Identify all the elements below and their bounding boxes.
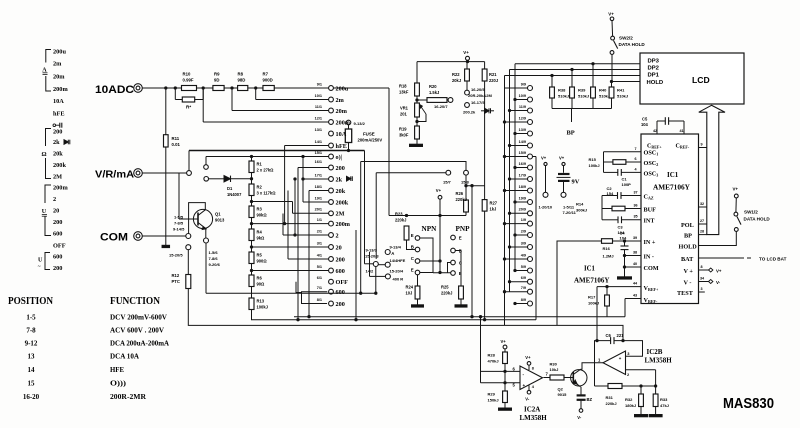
svg-text:16/9: 16/9	[519, 162, 526, 166]
power V+ to contact 1-20/10	[541, 155, 547, 192]
rotary switch wafer-9 contact 18/9	[503, 185, 532, 193]
net label BP	[567, 130, 575, 137]
IC1 label duplicate (left)	[574, 266, 609, 285]
wire R27 to bottom bus	[484, 211, 486, 320]
IC1 pin 34 V-	[684, 276, 721, 286]
svg-text:300kJ: 300kJ	[576, 207, 587, 212]
rotary switch wafer-9 contact 20/9	[508, 208, 532, 216]
svg-text:V+: V+	[436, 188, 442, 193]
svg-text:BP: BP	[567, 130, 575, 137]
power V+ hFE socket	[436, 188, 442, 274]
svg-text:2/9: 2/9	[521, 229, 526, 233]
capacitor C6 221	[595, 333, 643, 363]
wire tap 20m range (x232)	[232, 88, 329, 111]
resistor R4	[249, 229, 265, 241]
svg-text:13kF: 13kF	[399, 90, 409, 95]
resistor R25 220kJ	[441, 285, 463, 305]
transistor Q2 9015	[558, 369, 588, 397]
svg-text:1.2MJ: 1.2MJ	[603, 253, 614, 258]
rotary switch wafer-9 contact 6/9	[508, 276, 532, 284]
svg-text:2: 2	[336, 232, 339, 239]
svg-text:14/9: 14/9	[519, 140, 526, 144]
svg-text:39: 39	[633, 236, 637, 240]
svg-text:200: 200	[53, 265, 62, 272]
wire Q1 collector loop to contact	[189, 203, 206, 234]
svg-text:DP2: DP2	[648, 66, 660, 72]
svg-text:20m: 20m	[336, 108, 348, 115]
svg-text:V +: V +	[684, 268, 694, 275]
svg-text:9kΩ: 9kΩ	[257, 235, 266, 240]
svg-text:7-8/6: 7-8/6	[209, 256, 219, 261]
svg-text:FUNCTION: FUNCTION	[110, 296, 160, 307]
transistor Q1 9013	[190, 209, 225, 229]
terminal jack COM	[134, 232, 143, 241]
IC1 pin 9 to LCD bus	[699, 142, 707, 147]
svg-text:220kJ: 220kJ	[606, 401, 617, 406]
table row 7-8 ACV 600V . 200V	[26, 326, 164, 335]
svg-text:IN -: IN -	[644, 254, 654, 261]
rotary switch wafer-1 contact 2/1 (2)	[317, 229, 339, 239]
svg-text:200m: 200m	[53, 86, 68, 93]
wire cluster to emitter bus	[360, 267, 377, 295]
power V+ SW2/2	[608, 12, 614, 17]
contact 2 (to D1)	[204, 177, 209, 182]
svg-text:4/9: 4/9	[521, 253, 526, 257]
wire row 2/1 2V tap	[283, 214, 329, 236]
wire IC2B pin2 feedback	[626, 370, 656, 394]
svg-text:8/9: 8/9	[521, 298, 526, 302]
table row 9-12 DCA 200uA-200mA	[25, 339, 170, 348]
rotary switch wafer-9 contact 2/9	[514, 229, 533, 237]
wire PNP C jog to E row	[448, 263, 451, 273]
svg-text:POL: POL	[681, 222, 694, 229]
svg-text:90kΩ: 90kΩ	[257, 212, 268, 217]
svg-text:14: 14	[28, 366, 36, 374]
svg-text:15/9: 15/9	[519, 151, 526, 155]
wire vertical x295 (17/1 to 2/1)	[294, 178, 296, 236]
svg-text:15: 15	[28, 380, 36, 388]
svg-text:200: 200	[53, 129, 62, 136]
svg-text:10/9: 10/9	[519, 94, 526, 98]
svg-text:TEST: TEST	[677, 290, 694, 297]
contact collector 1-5/5 7-8/5 9-14/5	[173, 215, 191, 239]
svg-text:6: 6	[635, 157, 637, 161]
wire SW2/2 to HOLD bus	[611, 54, 613, 81]
wire R21 to R27	[484, 81, 486, 200]
resistor R41 510kJ	[609, 80, 628, 108]
svg-text:40: 40	[633, 262, 637, 266]
svg-text:HFE: HFE	[110, 365, 124, 374]
ground bar at COM (R11 return)	[162, 236, 170, 248]
svg-text:200R-2MR: 200R-2MR	[110, 392, 147, 401]
svg-text:14/1: 14/1	[315, 140, 322, 144]
svg-text:14/4HFE: 14/4HFE	[390, 258, 406, 263]
svg-text:2m: 2m	[53, 61, 62, 68]
svg-text:V+: V+	[733, 187, 739, 192]
ground bar under R32	[635, 415, 648, 417]
svg-text:LM358H: LM358H	[645, 357, 673, 365]
svg-text:VR1: VR1	[400, 106, 409, 111]
IC1 pin 38 IN-	[623, 250, 654, 260]
wire row 5/1 600V tap	[252, 270, 329, 272]
resistor R26 220kJ	[456, 191, 469, 212]
svg-text:200u: 200u	[53, 49, 66, 56]
svg-text:20/9: 20/9	[519, 208, 526, 212]
svg-text:1-20/10: 1-20/10	[539, 204, 553, 209]
svg-text:R40: R40	[599, 87, 607, 92]
svg-text:R30: R30	[550, 361, 558, 366]
table heading POSITION	[8, 296, 53, 307]
svg-text:220kJ: 220kJ	[395, 217, 406, 222]
resistor R27 1kJ	[482, 200, 498, 212]
svg-text:600: 600	[336, 268, 345, 275]
svg-text:C1: C1	[622, 176, 628, 181]
rotary switch wafer-9 contact 5/9	[514, 265, 533, 273]
svg-text:R33: R33	[660, 397, 668, 402]
svg-text:DCA 10A: DCA 10A	[110, 352, 139, 361]
wire 200u range to R18 (y88 right)	[333, 87, 389, 89]
svg-text:E: E	[459, 235, 462, 240]
svg-text:V-: V-	[716, 280, 721, 285]
svg-text:INT: INT	[644, 218, 656, 225]
IC1 pin 3 TEST	[677, 287, 705, 297]
resistor R31 220kJ	[595, 363, 656, 406]
svg-text:9-13/3: 9-13/3	[366, 247, 378, 252]
resistor R30 10kJ	[550, 361, 574, 380]
resistor R15 100kJ (OSC2)	[589, 157, 659, 168]
legend bracket U= (DC volts)	[42, 185, 51, 236]
svg-text:PTC: PTC	[172, 279, 180, 284]
svg-text:0.99F: 0.99F	[183, 78, 194, 83]
wire CAZ rail x602	[601, 196, 603, 220]
table row 16-20 200R-2MR	[23, 392, 147, 401]
svg-text:R17: R17	[588, 295, 596, 300]
wire 200u drop x389 to socket bus y215.5	[389, 88, 466, 217]
wire 15/7 feed y172.7	[376, 173, 446, 259]
rotary switch wafer-9 contact 8/9	[514, 298, 533, 306]
svg-text:VREF+: VREF+	[644, 285, 659, 292]
svg-text:15-20/4: 15-20/4	[390, 269, 404, 274]
resistor R14 300kJ (BUF)	[576, 201, 656, 213]
rotary switch wafer-1 contact 6/1 (OFF)	[317, 276, 348, 286]
svg-text:V/R/mA: V/R/mA	[95, 170, 135, 181]
svg-text:R26: R26	[456, 191, 464, 196]
switch SW1/2 DATA HOLD	[734, 194, 770, 231]
svg-text:20: 20	[53, 208, 59, 215]
svg-text:E: E	[411, 267, 414, 272]
svg-text:hFE: hFE	[336, 143, 347, 150]
wire row 1/1 200mV tap	[252, 223, 329, 225]
svg-text:220kJ: 220kJ	[441, 291, 452, 296]
svg-text:DATA HOLD: DATA HOLD	[619, 42, 646, 47]
wire NPN C to V+ rail	[420, 260, 441, 262]
IC1 pin 7 OSC1	[604, 147, 659, 157]
wire wafer-9 bus x509.5	[509, 70, 511, 292]
wire row 3/1 20V tap	[252, 246, 329, 248]
wire Q1 base from V/R/mA	[179, 173, 190, 219]
IC1 pin 8 V+	[684, 265, 722, 275]
svg-text:15-20/3: 15-20/3	[365, 253, 379, 258]
power V- buzzer	[577, 409, 583, 420]
svg-text:17/9: 17/9	[519, 173, 526, 177]
svg-text:R*: R*	[186, 105, 191, 110]
IC1 BAT pin TO LCD BAT	[681, 256, 787, 263]
svg-text:7-8: 7-8	[26, 327, 36, 335]
svg-text:IC2B: IC2B	[647, 348, 663, 356]
svg-text:1-5/5: 1-5/5	[174, 215, 184, 220]
svg-text:200m: 200m	[336, 221, 351, 228]
svg-text:9015: 9015	[558, 392, 568, 397]
svg-text:DATA HOLD: DATA HOLD	[744, 216, 771, 221]
svg-text:R39: R39	[578, 87, 586, 92]
svg-text:90Ω: 90Ω	[257, 281, 266, 286]
svg-text:R21: R21	[489, 72, 497, 77]
svg-text:13/1: 13/1	[315, 128, 322, 132]
resistor R21 220J	[482, 62, 498, 83]
op-amp IC1 AME7106Y main box	[641, 134, 699, 304]
rotary switch wafer-9 contact 9/9	[505, 82, 533, 90]
svg-text:R15: R15	[589, 157, 597, 162]
resistor R38 510kJ	[550, 74, 570, 108]
terminal jack V/R/mA	[134, 169, 143, 178]
svg-text:200: 200	[53, 219, 62, 226]
svg-text:37: 37	[634, 190, 638, 194]
rotary switch wafer-1 contact 20/1 (2M)	[315, 208, 345, 218]
IC1 pin 32	[699, 202, 707, 207]
svg-text:R29: R29	[488, 391, 496, 396]
label NPN	[422, 225, 438, 233]
svg-text:15/1: 15/1	[315, 151, 322, 155]
wire row 14/1 hFE tap	[283, 146, 328, 225]
contact 15-20/5 to R12	[169, 245, 191, 275]
svg-text:10A: 10A	[53, 98, 64, 105]
svg-text:36: 36	[634, 203, 638, 207]
svg-text:R13: R13	[257, 298, 265, 303]
IC1 pin 40 COM	[623, 262, 658, 272]
svg-text:o)|: o)|	[336, 154, 343, 161]
resistor R3	[249, 206, 267, 218]
rotary switch wafer-9 contact 3/9	[508, 241, 532, 249]
svg-text:20/1: 20/1	[315, 208, 322, 212]
svg-text:510kJ: 510kJ	[558, 93, 569, 98]
svg-text:R32: R32	[625, 397, 633, 402]
svg-text:17/1: 17/1	[315, 173, 322, 177]
svg-text:100P: 100P	[622, 182, 632, 187]
capacitor C5 104 (Cref)	[641, 117, 684, 134]
svg-text:R31: R31	[606, 395, 614, 400]
ground bar under R24	[412, 305, 424, 307]
legend diode-test symbol (continuity o-||)	[53, 123, 62, 128]
rotary switch wafer-9 contact 19/9	[514, 196, 533, 204]
svg-text:LCD: LCD	[692, 75, 710, 85]
svg-text:4/1: 4/1	[317, 253, 322, 257]
svg-text:42: 42	[653, 129, 657, 133]
svg-text:BUF: BUF	[644, 206, 657, 213]
wire R26 R27 top link	[465, 175, 485, 200]
wire IC2A output	[544, 377, 551, 379]
svg-text:OSC3: OSC3	[644, 170, 659, 177]
svg-text:1N4007: 1N4007	[227, 192, 242, 197]
rotary switch wafer-1 contact 12/1 (200m)	[315, 116, 351, 126]
table row 15 O)))	[28, 379, 127, 388]
svg-text:IC1: IC1	[584, 266, 596, 273]
junction dots on 10ADC bus	[165, 87, 257, 89]
contact 1 (to R1 top)	[204, 157, 209, 170]
rotary switch wafer-1 contact 3/1 (20)	[317, 241, 342, 251]
rotary switch wafer-9 contact 12/9	[503, 116, 532, 124]
svg-text:DCV 200mV-600V: DCV 200mV-600V	[110, 313, 167, 322]
svg-text:Q2: Q2	[558, 387, 564, 392]
contact junction circle 14/2	[365, 262, 386, 274]
wire tap 200m range (x203)	[203, 88, 329, 122]
rotary switch wafer-9 contact 14/9	[508, 140, 532, 148]
svg-text:18/1: 18/1	[315, 185, 322, 189]
rotary switch wafer-9 contact 7/9	[503, 286, 532, 294]
svg-text:9/9: 9/9	[521, 82, 526, 86]
svg-text:POSITION: POSITION	[8, 296, 53, 307]
svg-text:1-5: 1-5	[26, 314, 36, 322]
svg-text:HOLD: HOLD	[647, 80, 664, 86]
svg-text:V+: V+	[716, 268, 722, 273]
resistor R40 510kJ	[591, 63, 611, 109]
svg-text:V -: V -	[684, 280, 692, 287]
wire R26-R27 node drop x472	[471, 185, 473, 317]
table row 13 DCA 10A	[28, 352, 140, 361]
svg-text:8: 8	[532, 367, 534, 371]
wire row 16/1 200ohm	[298, 168, 329, 320]
svg-text:12/1: 12/1	[315, 116, 322, 120]
op-amp IC2B LM358H	[598, 348, 672, 377]
svg-text:3k0F: 3k0F	[399, 133, 409, 138]
rotary switch wafer-1 contact 9/1 (200u)	[317, 82, 349, 92]
contact 1-20/10	[539, 192, 553, 209]
svg-text:V+: V+	[559, 155, 565, 160]
svg-text:8: 8	[701, 265, 703, 269]
svg-text:SW2/2: SW2/2	[619, 35, 633, 40]
wire V/R/mA terminal	[142, 172, 186, 174]
resistor R8	[238, 72, 248, 91]
resistor R6	[249, 275, 265, 287]
wire Q2 collector to IC2B output	[581, 363, 604, 370]
rotary switch wafer-9 contact 10/9	[514, 94, 533, 102]
wire LCD bus DP1 y75.5	[505, 75, 641, 77]
resistor R29 150kJ	[488, 382, 508, 408]
rotary switch wafer-1 contact 7/1 (600)	[317, 286, 345, 296]
svg-text:E: E	[411, 233, 414, 238]
wire LCD bus DP2 y69.5	[510, 69, 641, 71]
rotary switch wafer-9 contact 4/9	[503, 253, 532, 261]
svg-text:3/9: 3/9	[521, 241, 526, 245]
svg-text:IC1: IC1	[667, 171, 679, 179]
svg-text:IC2A: IC2A	[524, 406, 540, 414]
ground bar under R29	[499, 408, 512, 410]
wire backplane common y108.5	[552, 109, 612, 123]
rotary switch wafer-1 contact 17/1 (2k)	[315, 173, 343, 183]
resistor R24 10J	[406, 275, 420, 305]
svg-text:510kJ: 510kJ	[599, 93, 610, 98]
svg-text:V+: V+	[608, 12, 614, 17]
wire IN+ bus drop to C6 node	[622, 325, 624, 341]
svg-text:7/9: 7/9	[521, 286, 526, 290]
wire row 7/1 600AC	[296, 282, 327, 293]
ground bar under R19	[410, 144, 423, 146]
svg-text:+: +	[619, 356, 622, 361]
wire IC2A input feeds	[479, 316, 520, 383]
svg-text:200u: 200u	[336, 85, 349, 92]
wire NPN E link	[420, 238, 433, 273]
svg-text:R8: R8	[238, 72, 244, 77]
wire row 17/1 2k	[302, 178, 329, 180]
wire fuse bus y150.5 heavy	[189, 150, 365, 152]
svg-text:470kJ: 470kJ	[488, 358, 499, 363]
svg-text:150kJ: 150kJ	[488, 397, 499, 402]
rotary switch wafer-1 contact 1/1 (200m)	[317, 218, 351, 228]
svg-text:600: 600	[336, 289, 345, 296]
fuse FUSE 200mA/250V	[345, 129, 382, 152]
svg-text:9-20/6: 9-20/6	[209, 262, 221, 267]
svg-text:510kJ: 510kJ	[578, 93, 589, 98]
svg-text:R7: R7	[263, 72, 269, 77]
rotary switch wafer-1 contact 5/1 (600)	[317, 265, 345, 275]
LCD segment bus arrow	[699, 105, 725, 234]
rotary switch wafer-9 contact 15/9	[503, 151, 532, 159]
svg-text:1/1: 1/1	[317, 218, 322, 222]
svg-text:200.2k: 200.2k	[463, 110, 476, 115]
wire fuse-bus drop x364.5	[364, 151, 366, 264]
svg-text:R27: R27	[490, 201, 498, 206]
table row 1-5 DCV 200mV-600V	[26, 313, 167, 322]
contact V/R/mA to fuse line	[187, 151, 192, 176]
svg-text:7/1: 7/1	[317, 286, 322, 290]
wire PNP B to R25	[455, 251, 461, 287]
svg-text:CAZ: CAZ	[644, 193, 654, 200]
rotary switch wafer-9 contact 16/9	[514, 162, 533, 170]
svg-text:600: 600	[53, 231, 62, 238]
svg-text:ACV 600V . 200V: ACV 600V . 200V	[110, 326, 164, 335]
resistor R23 220kJ	[395, 211, 415, 249]
svg-text:9: 9	[701, 142, 703, 146]
svg-text:11/9: 11/9	[519, 105, 526, 109]
svg-text:3/1: 3/1	[317, 241, 322, 245]
svg-text:43: 43	[633, 293, 637, 297]
svg-text:19/1: 19/1	[315, 196, 322, 200]
rotary switch wafer-1 contact 4/1 (200)	[317, 253, 345, 263]
wire 15/8 feed y161.5	[361, 162, 466, 294]
svg-text:10/1: 10/1	[315, 94, 322, 98]
svg-text:200m: 200m	[336, 119, 351, 126]
contact 14/4 hFE	[385, 258, 405, 267]
svg-text:9V: 9V	[572, 179, 580, 186]
svg-text:7-20/11: 7-20/11	[563, 210, 577, 215]
svg-text:220J: 220J	[489, 78, 498, 83]
svg-text:AME7106Y: AME7106Y	[653, 183, 691, 192]
wire R13 bottom to bus	[252, 310, 537, 320]
diode symbol at 2k contact	[347, 176, 353, 181]
svg-text:CREF-: CREF-	[676, 144, 690, 150]
svg-text:MAS830: MAS830	[723, 395, 774, 412]
svg-text:100kJ: 100kJ	[257, 304, 268, 309]
svg-text:V-: V-	[577, 415, 582, 420]
svg-text:R2: R2	[257, 184, 263, 189]
svg-text:2M: 2M	[336, 211, 345, 218]
resistor R19	[399, 117, 419, 144]
ground bar under R33	[649, 415, 662, 417]
svg-text:9-13/2: 9-13/2	[354, 121, 366, 126]
svg-text:3: 3	[701, 287, 703, 291]
svg-text:5/9: 5/9	[521, 265, 526, 269]
svg-text:R19: R19	[399, 127, 407, 132]
svg-text:O))): O)))	[110, 379, 127, 388]
